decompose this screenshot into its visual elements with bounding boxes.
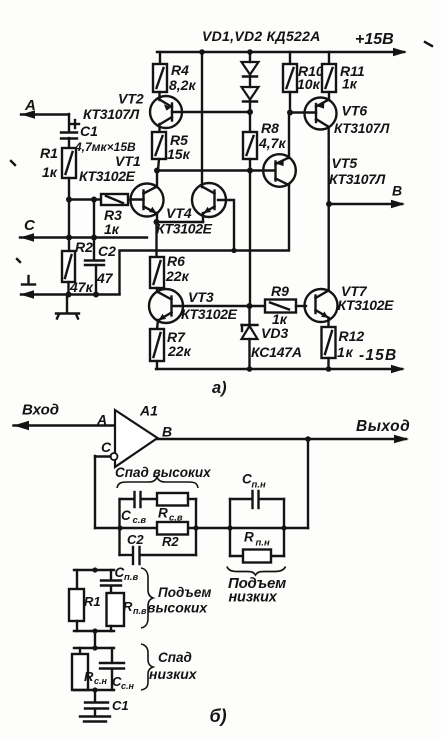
resistor R8: [243, 120, 286, 170]
transistor VT3: [149, 289, 238, 329]
brace right of net4: [141, 644, 153, 690]
node VT4 base junction: [231, 248, 236, 253]
svg-text:+15В: +15В: [355, 31, 394, 48]
node net2 right: [281, 525, 286, 530]
svg-text:1к: 1к: [42, 164, 58, 180]
node R2-gnd junction: [66, 292, 72, 298]
wire C2 branch vertical: [93, 200, 95, 261]
svg-text:47: 47: [96, 270, 114, 286]
svg-text:R: R: [84, 669, 94, 684]
svg-text:R1: R1: [84, 594, 101, 609]
network2 frame: [230, 499, 284, 556]
svg-text:4,7мк×15В: 4,7мк×15В: [74, 140, 136, 154]
resistor R7: [150, 329, 192, 369]
svg-text:А: А: [96, 412, 107, 428]
inverting input circle: [111, 453, 118, 460]
scan speck 3: [425, 42, 432, 46]
network4 bottom line: [74, 689, 114, 691]
svg-text:-15В: -15В: [359, 347, 397, 364]
scan speck 2: [17, 259, 20, 262]
node VT6 base junction: [287, 110, 293, 116]
resistor R12: [322, 327, 365, 369]
svg-text:VT4: VT4: [166, 205, 192, 221]
svg-text:R8: R8: [261, 120, 279, 136]
brace under net2: [227, 567, 286, 576]
svg-text:22к: 22к: [167, 343, 192, 359]
resistor R1b: [69, 570, 101, 631]
svg-text:Вход: Вход: [22, 402, 59, 419]
svg-text:R4: R4: [171, 62, 189, 78]
node C2 junction on C line: [91, 235, 97, 241]
node net2 left: [227, 525, 232, 530]
transistor VT7: [305, 283, 395, 327]
svg-text:С: С: [242, 472, 252, 487]
resistor R1: [40, 145, 76, 180]
wire VT6 collector to VT7 collector: [328, 127, 330, 291]
node output tap: [305, 436, 311, 442]
node diode/VT2 base junction: [247, 109, 253, 115]
svg-text:47к: 47к: [69, 279, 94, 295]
wire VT5 emitter to VT6 base: [288, 113, 290, 159]
wire R8 node down to VD3/R9 node: [249, 171, 251, 307]
svg-text:С: С: [121, 508, 131, 523]
wire VT3 base / R9 line: [173, 305, 265, 307]
svg-text:КТ3102Е: КТ3102Е: [181, 306, 238, 322]
node R5/VT1 collector junction: [154, 168, 160, 174]
wire VT2 base to diode node: [172, 111, 250, 113]
op-amp A1: [115, 403, 172, 468]
resistor Rsv: [157, 493, 196, 524]
wire VT5 collector down-left: [120, 185, 290, 294]
node C2 tap junction: [91, 197, 97, 203]
wire VT4 collector to rail: [201, 52, 203, 187]
svg-text:Спад: Спад: [158, 650, 192, 665]
node R1/R2 junction on C line: [66, 235, 72, 241]
capacitor Csv: [120, 492, 157, 526]
svg-text:п.н: п.н: [252, 480, 266, 491]
svg-text:п.в: п.в: [124, 572, 138, 583]
svg-text:С: С: [24, 217, 36, 234]
-15V rail: [156, 347, 405, 373]
scan speck 1: [11, 161, 15, 165]
node A: [21, 97, 69, 119]
resistor R10: [283, 52, 324, 113]
node C2-gnd junction: [93, 292, 99, 298]
diode VD2: [242, 76, 259, 132]
svg-text:R1: R1: [40, 145, 58, 161]
svg-text:R9: R9: [271, 283, 289, 299]
svg-text:1к: 1к: [272, 311, 288, 327]
transistor VT4: [156, 183, 226, 237]
svg-text:С: С: [115, 565, 125, 580]
svg-text:с.н: с.н: [94, 676, 108, 686]
resistor R2: [62, 239, 94, 295]
svg-text:С1: С1: [80, 123, 98, 139]
ground arrow node: [20, 276, 120, 299]
node B junction: [326, 201, 332, 207]
wire R1 bottom to C node: [68, 178, 70, 251]
svg-text:4,7к: 4,7к: [258, 135, 286, 151]
svg-text:низких: низких: [229, 590, 278, 606]
capacitor Csn: [100, 648, 135, 691]
svg-text:КТ3102Е: КТ3102Е: [79, 168, 136, 184]
svg-text:VT2: VT2: [118, 91, 144, 107]
output node: [158, 418, 411, 443]
network3 top line: [74, 569, 114, 571]
resistor Rsn: [72, 648, 108, 690]
ground symbol: [56, 295, 79, 319]
svg-text:8,2к: 8,2к: [169, 77, 196, 93]
wire net3 to net4: [94, 631, 96, 648]
node R8 junction: [247, 168, 253, 174]
svg-text:R: R: [158, 506, 168, 521]
node net1 right: [193, 525, 198, 530]
wire C down to feedback line: [94, 456, 96, 528]
svg-text:22к: 22к: [165, 268, 190, 284]
transistor VT6: [290, 98, 390, 137]
capacitor Cpn: [230, 491, 284, 508]
svg-text:КТ3107Л: КТ3107Л: [329, 171, 386, 187]
node C: [20, 217, 147, 242]
svg-text:R: R: [244, 530, 254, 545]
svg-text:R2: R2: [75, 239, 93, 255]
resistor Rpn: [230, 530, 284, 563]
svg-text:высоких: высоких: [147, 600, 208, 616]
svg-text:1к: 1к: [337, 344, 354, 360]
resistor R6: [150, 253, 190, 292]
network3 bottom line: [74, 630, 114, 632]
zener VD3: [242, 306, 302, 369]
resistor R5: [152, 132, 191, 170]
svg-text:КТ3102Е: КТ3102Е: [338, 297, 395, 313]
transistor VT2: [83, 91, 182, 133]
resistor R9: [265, 283, 306, 327]
capacitor C2b: [120, 532, 197, 564]
svg-text:1к: 1к: [342, 76, 358, 92]
resistor R3: [101, 194, 128, 237]
node R3 tap junction: [66, 197, 72, 203]
svg-text:VD1,VD2 КД522А: VD1,VD2 КД522А: [202, 28, 321, 44]
node C input: [95, 439, 112, 457]
svg-text:А1: А1: [139, 403, 158, 419]
svg-text:R12: R12: [339, 328, 365, 344]
svg-text:п.в: п.в: [133, 606, 147, 616]
resistor R4: [153, 52, 196, 93]
svg-text:Выход: Выход: [356, 418, 410, 435]
node junction rail-VT4 line: [199, 49, 205, 55]
resistor Rpv: [107, 587, 147, 631]
capacitor C1: [61, 114, 136, 154]
transistor VT1: [79, 153, 164, 222]
network4 top line: [74, 647, 114, 649]
svg-text:R2: R2: [162, 534, 179, 549]
svg-text:1к: 1к: [104, 221, 120, 237]
wire output down to network: [307, 439, 309, 528]
node B output: [329, 183, 405, 209]
network1 frame: [120, 499, 197, 555]
svg-text:VT3: VT3: [188, 289, 214, 305]
transistor VT5: [263, 154, 385, 187]
svg-text:В: В: [392, 183, 402, 199]
wire VT4 base: [218, 200, 234, 251]
svg-text:с.в: с.в: [133, 515, 147, 526]
capacitor Cpv: [101, 565, 138, 586]
svg-text:с.н: с.н: [121, 681, 135, 691]
svg-text:С2: С2: [98, 243, 116, 259]
node net3 bottom junction: [92, 628, 97, 633]
resistor R2b: [157, 522, 188, 549]
node R12-rail junction: [326, 366, 332, 372]
svg-text:VT1: VT1: [115, 153, 141, 169]
capacitor C1b: [85, 690, 129, 713]
wire VT1 collector to VT5 base: [157, 169, 274, 171]
node net4 top junction: [92, 645, 97, 650]
input node: [14, 402, 116, 431]
resistor R11: [322, 52, 365, 100]
svg-text:В: В: [162, 424, 172, 440]
svg-text:VD3: VD3: [261, 325, 288, 341]
svg-text:С1: С1: [112, 698, 129, 713]
capacitor C2: [85, 243, 116, 295]
brace over net1: [117, 477, 198, 488]
svg-text:п.н: п.н: [256, 538, 270, 549]
svg-text:низких: низких: [149, 666, 198, 682]
svg-text:VT5: VT5: [332, 155, 358, 171]
node net4 bottom junction: [92, 687, 97, 692]
+15V rail: [157, 48, 407, 56]
wire emitters join: [154, 219, 204, 257]
diode VD1: [242, 52, 259, 77]
svg-text:б): б): [210, 706, 227, 726]
svg-text:VT6: VT6: [342, 103, 368, 119]
node VD3 junction: [247, 303, 253, 309]
svg-text:10к: 10к: [297, 76, 321, 92]
svg-text:R: R: [123, 599, 133, 614]
brace right of net3: [141, 568, 153, 628]
svg-text:15к: 15к: [167, 146, 191, 162]
label Cpn: [242, 472, 266, 491]
svg-text:Спад высоких: Спад высоких: [115, 465, 211, 480]
svg-text:а): а): [212, 379, 227, 397]
node VD3-rail junction: [247, 366, 253, 372]
feedback main line: [95, 527, 308, 529]
svg-text:С: С: [101, 439, 112, 455]
svg-text:КТ3107Л: КТ3107Л: [83, 106, 140, 122]
node net3 top junction: [92, 567, 97, 572]
svg-text:Подъем: Подъем: [158, 585, 211, 600]
svg-text:С2: С2: [127, 532, 144, 547]
node junction rail-diodes: [247, 49, 253, 55]
node net1 left: [117, 525, 122, 530]
wire R3 left branch: [69, 198, 101, 200]
svg-text:КТ3107Л: КТ3107Л: [334, 121, 390, 136]
svg-text:R6: R6: [167, 253, 185, 269]
svg-text:КС147А: КС147А: [251, 344, 302, 360]
ground at C1b: [80, 709, 110, 722]
